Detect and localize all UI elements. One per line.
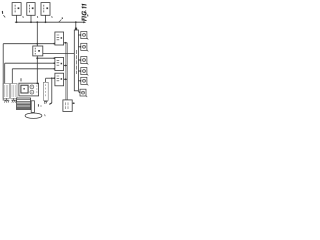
driver block M3 (55, 73, 64, 86)
driver block M2 (55, 58, 64, 71)
lamp box R5 (78, 77, 88, 85)
junction dot H1/V1 (36, 43, 38, 45)
wire branch to M2 top (37, 57, 54, 59)
letter G (82, 11, 86, 15)
block M2 inner glyphs (57, 60, 63, 65)
paper stack stripes (17, 100, 31, 102)
printer roller circle 2 (30, 90, 34, 94)
printer roller circle 1 (30, 85, 34, 89)
label glyph near guide (37, 104, 39, 106)
junction dot M2 stub (65, 65, 67, 67)
block B3 (top row box 3) (41, 3, 50, 16)
ground NB (44, 102, 48, 104)
sensor NB inner marks (45, 84, 47, 96)
printer inner square (print head) (21, 85, 28, 93)
wire stub B2 to bus (30, 15, 32, 22)
label tick B1 (22, 16, 25, 18)
wire NB riser (45, 78, 47, 82)
junction blob T top (75, 28, 77, 30)
junction dot branch at M2 (53, 57, 55, 59)
ground LH1 (4, 98, 9, 102)
wire V1 (bus down to block C) (36, 22, 38, 46)
junction dot B1/bus (16, 21, 18, 23)
block B1 (top row box 1) (12, 3, 21, 16)
junction dot V1 at printer (36, 83, 38, 85)
block C (center small box) (33, 46, 43, 56)
junction dot B2/bus (30, 21, 32, 23)
printer right-edge marks (36, 86, 37, 92)
wire platen drop (51, 78, 53, 103)
coil LH2 (hatched box) (10, 84, 17, 99)
paper guide (narrow vertical box) (31, 101, 34, 113)
numeral 1 (82, 4, 86, 6)
paper stack block (hatched) (17, 98, 31, 110)
wire H1 (left corner to M1) (3, 43, 54, 45)
wire M3 right stub to V2 (64, 78, 68, 80)
wire LH2 riser (11, 69, 13, 84)
letter F (82, 18, 86, 21)
driver block M1 (55, 32, 64, 45)
label tick B2 (36, 16, 39, 18)
letter I (82, 15, 86, 18)
wire bus drop into T (75, 22, 77, 30)
junction dot T-drop/bus (75, 21, 77, 23)
wire NB horizontal (to M3) (46, 77, 55, 79)
print head center dot (23, 88, 25, 90)
sensor block NB (narrow box) (43, 82, 48, 100)
platen pointer arrow (49, 103, 52, 105)
lamp box R4 (78, 68, 88, 76)
coil LH1 (hatched box) (3, 84, 10, 99)
period (84, 10, 87, 11)
wire BB right stub (72, 102, 74, 104)
coil LH2 hatch (12, 85, 15, 97)
wire H3 (LH2 to M2 bottom) (12, 68, 54, 70)
coil LH1 hatch (5, 85, 8, 97)
block M1 inner glyphs (57, 35, 63, 40)
lamp box R3 (78, 57, 88, 65)
printer mechanism box P (19, 83, 39, 96)
junction dot branch below C (36, 57, 38, 59)
junction dot B3/bus (45, 21, 47, 23)
wire LH1 riser (4, 63, 6, 83)
wire left vertical drop (2, 44, 4, 101)
block BB (bottom label box) (63, 100, 72, 112)
lamp box R1 (78, 32, 88, 40)
wire M2 right stub to V2 (64, 65, 68, 67)
block B3 inner glyphs (44, 5, 48, 13)
junction dot H3 at M2 (53, 68, 55, 70)
junction dot platen drop (51, 77, 53, 79)
junction dot M3 stub (65, 78, 67, 80)
cable V2 (double line down to block BB) (66, 43, 67, 100)
label 2 with leader line (top left) (2, 11, 5, 18)
label tick right of platen (44, 114, 47, 116)
bus arrowhead (83, 21, 86, 23)
junction dot NB line at M3 (53, 77, 55, 79)
lamp box R6 (78, 89, 87, 97)
wire M1 right stub to V2 (64, 42, 68, 44)
figure title FIG. 11 (drawn as vector strokes, rotated) (82, 4, 86, 21)
wire H2 (LH1 to M2) (5, 62, 55, 64)
junction dot V1/bus (36, 21, 38, 23)
junction dot BB stub (73, 102, 75, 104)
block B2 inner glyphs (29, 5, 33, 13)
junction dot M1 stub (65, 42, 67, 44)
bus wire (horizontal, arrow right) (15, 21, 85, 23)
wire stub B1 to bus (16, 15, 18, 22)
block BB rotated text marks (65, 102, 68, 109)
numeral 1 (82, 7, 86, 9)
label 6 with leader (on bus) (59, 17, 63, 21)
junction dot H1 at M1 (53, 43, 55, 45)
block C inner glyphs (35, 48, 40, 55)
junction dot H2 at M2 (53, 62, 55, 64)
connector block T (tall narrow box) (74, 30, 78, 91)
ground LH2 (11, 98, 16, 102)
wire from block C right to block T (43, 52, 75, 54)
block B2 (top row box 2) (27, 3, 35, 16)
block M3 inner glyphs (57, 76, 63, 81)
lamp box R2 (78, 43, 88, 51)
block B1 inner glyphs (15, 5, 19, 13)
label 4 (right end of bus) (87, 15, 89, 17)
label tick above printer (20, 78, 22, 81)
platen roller (ellipse) (25, 113, 42, 118)
block T vertical text marks (75, 50, 77, 74)
label tick B3 (51, 16, 54, 18)
wire stub B3 to bus (45, 15, 47, 22)
wire V1 lower (block C down to printer) (36, 56, 38, 84)
